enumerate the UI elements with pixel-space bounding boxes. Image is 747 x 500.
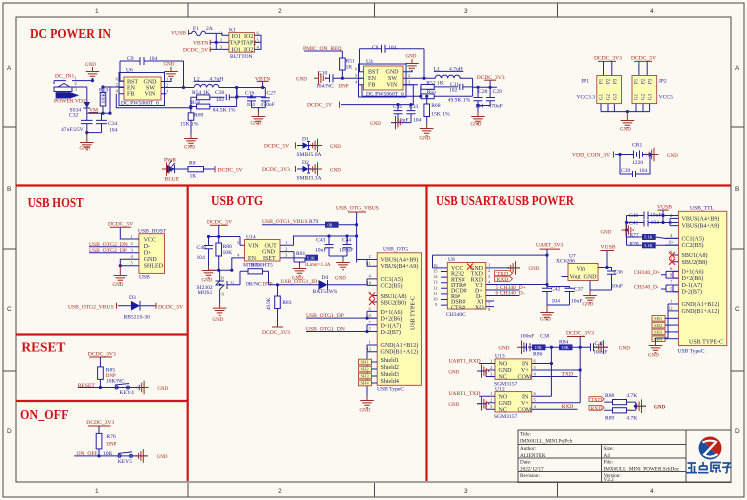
svg-text:Shield1: Shield1 [381, 358, 399, 364]
svg-text:1: 1 [131, 234, 134, 239]
diode D1 TVS [264, 137, 322, 159]
shield stub SH1 [359, 359, 378, 365]
svg-text:JP2: JP2 [659, 79, 667, 85]
svg-text:NO: NO [499, 394, 508, 400]
capacitor C34 [96, 113, 118, 133]
node DCDC_3V3 (switches) [566, 331, 594, 337]
shield stub SH3 [359, 373, 378, 379]
svg-text:ILimit=1.3A: ILimit=1.3A [305, 263, 331, 268]
svg-text:DCDC_5V: DCDC_5V [108, 222, 133, 228]
svg-text:USB_OTG: USB_OTG [383, 247, 408, 253]
node PMIC_ON_REQ [303, 46, 342, 52]
svg-text:SH3: SH3 [654, 330, 663, 335]
svg-text:VDD_COIN_3V: VDD_COIN_3V [572, 153, 610, 159]
svg-text:5: 5 [534, 398, 537, 403]
svg-text:Vin: Vin [577, 267, 586, 273]
resistor R89 [604, 402, 637, 421]
svg-text:CC1(A5): CC1(A5) [381, 276, 403, 283]
svg-text:GND: GND [360, 409, 371, 414]
svg-text:11: 11 [668, 220, 673, 225]
ground (CH340 pin1) [508, 261, 539, 275]
svg-text:V2.2: V2.2 [604, 477, 615, 483]
wire C40/C41 left vertical [626, 216, 628, 246]
ground (below USB_TTL) [648, 341, 662, 359]
svg-text:C: C [735, 306, 740, 313]
shield stub SH1 (TTL) [652, 316, 678, 322]
svg-text:D: D [735, 428, 740, 435]
svg-text:USB TypeC: USB TypeC [377, 387, 404, 393]
capacitor C40 [627, 212, 679, 220]
port RXD [495, 276, 513, 283]
svg-text:GND: GND [471, 123, 482, 128]
connector DC_IN1 barrel jack [54, 76, 78, 92]
svg-text:C32: C32 [69, 113, 79, 119]
svg-text:GND: GND [184, 146, 195, 151]
svg-text:GND: GND [620, 128, 631, 133]
node DCDC_3V3 (JP1) [594, 56, 622, 62]
node CH340_D- (TTL side) [634, 284, 678, 292]
svg-text:1: 1 [95, 8, 99, 15]
svg-text:GND: GND [335, 277, 346, 282]
resistor R56 [191, 88, 237, 114]
resistor R85 [98, 357, 125, 388]
svg-text:49.9K 1%: 49.9K 1% [448, 97, 471, 103]
shield stub SH3 (TTL) [652, 329, 678, 335]
svg-text:R76: R76 [106, 434, 116, 440]
ground (U12 GND pin) [448, 397, 488, 411]
svg-text:104: 104 [109, 128, 118, 134]
svg-text:C37: C37 [574, 286, 584, 292]
svg-text:BUTTON: BUTTON [230, 54, 253, 60]
svg-text:DCDC_3V3: DCDC_3V3 [594, 56, 622, 62]
svg-text:5: 5 [131, 260, 134, 265]
svg-text:2: 2 [166, 83, 169, 88]
svg-text:SH1: SH1 [361, 360, 370, 365]
ground (below R69) [184, 134, 198, 151]
capacitor C49 [591, 341, 609, 356]
svg-text:C38: C38 [540, 334, 550, 340]
svg-text:3: 3 [490, 404, 493, 409]
svg-text:GND: GND [584, 275, 598, 281]
no-connect X (VCC row) [467, 264, 473, 270]
capacitor C36 [607, 268, 623, 291]
LED PWR (blue) [162, 158, 182, 183]
node DCDC_5V (USB host) [108, 222, 133, 228]
svg-text:15K 1%: 15K 1% [431, 112, 450, 118]
svg-text:D-: D- [144, 244, 150, 250]
svg-text:10: 10 [668, 240, 673, 245]
node DCDC_3V3 (below R83) [262, 327, 290, 336]
node VM [89, 108, 99, 114]
svg-text:4: 4 [116, 89, 119, 94]
svg-text:R85: R85 [106, 367, 116, 373]
ground (right of R88/R89) [634, 399, 665, 413]
node ON_OFF [74, 451, 148, 457]
svg-text:V+: V+ [521, 368, 529, 374]
svg-text:A: A [7, 65, 12, 72]
node UART1_TXD [448, 391, 480, 397]
resistor R69 [180, 113, 204, 135]
svg-text:7: 7 [369, 320, 372, 325]
svg-text:15: 15 [433, 269, 438, 274]
svg-text:UART_3V3: UART_3V3 [536, 243, 564, 249]
svg-text:49.9K: 49.9K [267, 297, 272, 310]
svg-text:GND: GND [448, 403, 459, 408]
svg-text:VBUS(A4+B9): VBUS(A4+B9) [682, 216, 720, 223]
svg-text:R8: R8 [189, 161, 196, 167]
ground (right of CR1) [647, 148, 678, 162]
svg-text:4.7K: 4.7K [626, 393, 637, 399]
svg-text:GND: GND [262, 250, 276, 256]
resistor R81 [296, 251, 331, 268]
svg-text:SH2: SH2 [654, 323, 663, 328]
svg-text:10uF: 10uF [612, 284, 624, 290]
svg-text:8: 8 [488, 307, 491, 312]
svg-text:GND: GND [113, 283, 124, 288]
svg-text:CC1(A5): CC1(A5) [682, 236, 704, 243]
ground (below C42/C37) [540, 305, 554, 323]
svg-text:U6: U6 [126, 68, 133, 74]
svg-text:IMX6ULL_MINI_POWER.SchDoc: IMX6ULL_MINI_POWER.SchDoc [604, 467, 680, 473]
wire DCDC_5V drop [209, 225, 241, 243]
node CH340_D+ (TTL side) [634, 270, 678, 278]
red section divider vertical left [187, 186, 189, 482]
wire U4 output rail [473, 78, 497, 87]
svg-text:DCDC_3V3: DCDC_3V3 [86, 420, 114, 426]
svg-text:VUSB: VUSB [601, 245, 616, 251]
svg-text:IO2: IO2 [244, 34, 253, 40]
svg-text:10uF: 10uF [571, 299, 583, 305]
svg-text:C39: C39 [621, 168, 631, 174]
svg-text:Title:: Title: [520, 432, 532, 438]
wire EN feed [87, 87, 124, 113]
svg-text:R81: R81 [296, 251, 306, 257]
svg-text:SH3: SH3 [361, 374, 370, 379]
svg-text:ISET: ISET [263, 256, 276, 262]
svg-text:COM: COM [518, 375, 532, 381]
capacitor C28 [474, 87, 488, 109]
svg-text:SBU2(B8): SBU2(B8) [682, 259, 708, 266]
svg-text:10K: 10K [562, 345, 569, 350]
capacitor C11 [449, 82, 473, 94]
capacitor C9 [120, 56, 184, 65]
svg-text:GND: GND [654, 406, 666, 411]
svg-text:16: 16 [433, 263, 438, 268]
svg-text:VUSB: VUSB [171, 31, 186, 37]
svg-text:GND: GND [213, 318, 224, 323]
glyph 正 [687, 463, 698, 473]
svg-text:RESET: RESET [21, 340, 65, 355]
svg-text:3: 3 [408, 80, 411, 85]
resistor R52 [421, 81, 458, 90]
svg-text:15K 1%: 15K 1% [180, 122, 199, 128]
svg-text:3: 3 [464, 488, 468, 495]
ground (below C43/C44) [329, 256, 350, 282]
svg-text:SBU1(A8): SBU1(A8) [381, 293, 407, 300]
svg-text:BST: BST [127, 79, 138, 85]
resistor R84 [559, 339, 573, 350]
resistor R68 [424, 103, 450, 124]
svg-text:KEY5: KEY5 [118, 459, 132, 465]
svg-text:KEY4: KEY4 [120, 390, 134, 396]
svg-text:VCC3.3: VCC3.3 [577, 95, 596, 101]
svg-text:3: 3 [131, 247, 134, 252]
svg-text:IMX6ULL_MINI.PrjPcb: IMX6ULL_MINI.PrjPcb [520, 439, 573, 445]
wire VBUS drop [357, 212, 367, 263]
svg-text:VCC: VCC [144, 237, 156, 243]
capacitor C33 [407, 104, 422, 124]
svg-text:C: C [7, 306, 12, 313]
logo ALIENTEK swirl [699, 437, 722, 460]
svg-text:5: 5 [355, 73, 358, 78]
node RESET [78, 383, 149, 389]
svg-text:6: 6 [369, 307, 372, 312]
svg-text:GND: GND [202, 279, 213, 284]
svg-text:IN: IN [522, 362, 529, 368]
svg-text:CTS#: CTS# [451, 305, 465, 311]
node CH340_D+ [486, 285, 526, 291]
svg-text:G3: G3 [649, 93, 654, 100]
svg-text:DCDC_5V: DCDC_5V [218, 168, 243, 174]
frame column ticks [188, 3, 558, 497]
node DCDC_5V (OTG) [207, 220, 232, 226]
svg-text:4.7K: 4.7K [626, 416, 637, 422]
svg-text:470uF: 470uF [489, 103, 503, 109]
svg-text:TAP2: TAP2 [243, 41, 257, 47]
svg-text:EN: EN [248, 256, 257, 262]
frame row ticks [3, 127, 744, 371]
fuse F1 [189, 26, 216, 36]
svg-text:5.1K: 5.1K [644, 235, 652, 240]
resistor R80 [209, 243, 233, 270]
svg-text:1: 1 [166, 76, 169, 81]
svg-text:CH340C: CH340C [446, 312, 466, 318]
port RXD (R89) [589, 405, 604, 412]
svg-text:VBUS(B4+A9): VBUS(B4+A9) [381, 263, 419, 270]
svg-text:2: 2 [278, 8, 282, 15]
node DCDC_5V (JP2) [631, 56, 656, 62]
svg-text:VIN: VIN [387, 83, 398, 89]
svg-text:DCDC_3V3: DCDC_3V3 [566, 331, 594, 337]
svg-text:C34: C34 [108, 121, 118, 127]
ground (below USB_HOST) [113, 266, 128, 288]
svg-text:1: 1 [490, 391, 493, 396]
shield stub SH2 [359, 366, 378, 372]
capacitor C39 [621, 168, 648, 177]
red section divider horizontal [16, 184, 731, 186]
node USB_OTG2_VBUS [68, 303, 117, 311]
resistor R82 [240, 263, 273, 288]
regulator U7 XC6206 [556, 254, 607, 281]
svg-text:C49: C49 [595, 341, 605, 347]
junction [215, 41, 218, 44]
svg-text:USB_TTL: USB_TTL [690, 206, 715, 212]
glyph 原 [711, 463, 722, 473]
svg-text:GND: GND [330, 145, 341, 150]
switch U12 SGM3157 [479, 387, 580, 421]
svg-text:2: 2 [220, 38, 223, 43]
svg-text:GND: GND [583, 303, 594, 308]
svg-text:RXD: RXD [497, 277, 509, 283]
ground (U7/C36) [583, 281, 612, 308]
node USB_OTG1_DN [306, 326, 377, 333]
svg-text:102: 102 [216, 97, 225, 103]
svg-text:GND: GND [164, 63, 175, 68]
svg-text:DCDC_5V: DCDC_5V [307, 102, 332, 108]
svg-text:C16: C16 [245, 91, 255, 97]
svg-text:2: 2 [408, 73, 411, 78]
svg-text:6: 6 [355, 67, 358, 72]
node UART_3V3 [536, 243, 564, 250]
svg-text:R83: R83 [282, 300, 292, 306]
switch KEY4 [115, 384, 134, 397]
transistor MOS1 SI2302 [197, 270, 241, 303]
svg-text:CH340_D+: CH340_D+ [634, 270, 660, 276]
ground (below C32/C34) [80, 133, 94, 152]
svg-text:RXD: RXD [591, 406, 603, 412]
svg-text:CC2(B5): CC2(B5) [381, 283, 403, 290]
svg-text:1: 1 [285, 240, 288, 245]
svg-text:USB OTG: USB OTG [211, 193, 263, 208]
svg-text:ALIENTEK: ALIENTEK [520, 453, 546, 459]
svg-text:2: 2 [278, 488, 282, 495]
capacitor C8 [360, 45, 425, 78]
svg-text:10: 10 [433, 297, 438, 302]
glyph 子 [722, 463, 732, 473]
node USB_OTG2_DN [89, 242, 134, 248]
svg-text:1: 1 [670, 299, 673, 304]
svg-text:104: 104 [197, 255, 206, 261]
svg-text:DCDC_5V: DCDC_5V [631, 56, 656, 62]
wire VUSB to Vin [606, 251, 608, 268]
svg-text:2: 2 [75, 81, 78, 86]
connector USB_TTL type-c [665, 206, 727, 355]
svg-text:47uF/25V: 47uF/25V [61, 127, 84, 133]
no-connect X SBU1 (TTL) [669, 252, 675, 258]
ground (above U6 pin1) [161, 63, 178, 82]
svg-text:1: 1 [369, 340, 372, 345]
op-amp U4 [355, 59, 435, 98]
svg-text:D+2(B6): D+2(B6) [682, 275, 704, 282]
svg-text:100uF: 100uF [339, 248, 353, 254]
svg-text:GND: GND [330, 169, 341, 174]
resistor R77 [627, 232, 679, 240]
svg-text:B: B [735, 186, 739, 193]
svg-text:4: 4 [237, 252, 240, 257]
svg-text:P3: P3 [649, 78, 654, 84]
svg-text:100nF: 100nF [520, 334, 534, 340]
svg-text:A: A [735, 65, 740, 72]
svg-text:GND: GND [448, 371, 459, 376]
svg-text:3: 3 [166, 89, 169, 94]
svg-text:R68: R68 [431, 103, 441, 109]
svg-text:D-1(A7): D-1(A7) [381, 322, 402, 329]
svg-text:R82: R82 [251, 263, 261, 269]
svg-text:104: 104 [413, 118, 422, 124]
svg-text:A4: A4 [604, 453, 611, 459]
inductor L2 [194, 77, 266, 88]
resistor R88 [604, 393, 637, 405]
svg-text:TAP1: TAP1 [230, 41, 244, 47]
node VDD_COIN_3V [572, 152, 614, 159]
svg-text:UART1_RXD: UART1_RXD [448, 359, 480, 365]
svg-text:GND: GND [157, 455, 168, 460]
svg-text:GND: GND [296, 78, 307, 83]
svg-text:B: B [7, 186, 11, 193]
svg-text:GND(A1+B12): GND(A1+B12) [381, 342, 419, 349]
svg-text:1: 1 [75, 76, 78, 81]
svg-text:DCDC_3V3: DCDC_3V3 [262, 167, 290, 173]
wire TTL GND drop [656, 311, 669, 341]
svg-text:SBU2(B0): SBU2(B0) [381, 300, 407, 307]
ground (left of C38) [499, 340, 529, 354]
svg-text:DCDC_5V: DCDC_5V [158, 305, 183, 311]
svg-text:S: S [222, 292, 225, 297]
svg-text:TXD: TXD [591, 397, 603, 403]
diode SS34 [70, 87, 91, 114]
capacitor C10 [316, 71, 363, 90]
svg-text:2022/12/17: 2022/12/17 [520, 467, 544, 473]
svg-text:2: 2 [131, 241, 134, 246]
svg-text:BAT54WS: BAT54WS [313, 289, 338, 295]
svg-text:G2: G2 [607, 93, 612, 100]
svg-text:3: 3 [490, 371, 493, 376]
capacitor C41 [627, 220, 679, 227]
wire jack pin2 to GND junction [78, 81, 93, 87]
svg-text:VBUS(B4+A9): VBUS(B4+A9) [682, 223, 720, 230]
svg-text:SHLED: SHLED [144, 263, 164, 269]
capacitor C30 [215, 90, 237, 103]
svg-text:84.5K 1%: 84.5K 1% [213, 107, 236, 113]
wire battery loop [620, 155, 650, 175]
svg-text:D+2(B6): D+2(B6) [381, 316, 403, 323]
svg-text:GND: GND [648, 354, 659, 359]
diode D2 TVS [262, 160, 322, 182]
svg-text:4: 4 [650, 8, 654, 15]
port TXD (U13 COM) [562, 371, 574, 377]
svg-text:Size:: Size: [604, 446, 615, 452]
svg-text:V+: V+ [521, 401, 529, 407]
svg-text:P1: P1 [600, 78, 605, 84]
svg-text:TXD: TXD [562, 371, 574, 377]
svg-text:USB TypeC: USB TypeC [678, 349, 705, 355]
svg-text:D: D [7, 428, 12, 435]
svg-text:USB_OTG2_VBUS: USB_OTG2_VBUS [68, 305, 114, 311]
svg-text:4: 4 [355, 80, 358, 85]
wire OUT up to cap rail [294, 236, 357, 245]
svg-text:0R/NC: 0R/NC [246, 281, 262, 287]
svg-text:4: 4 [131, 254, 134, 259]
svg-text:GND: GND [144, 257, 158, 263]
svg-text:SW: SW [388, 76, 397, 82]
resistor R54 [191, 90, 225, 100]
svg-text:DCDC_5V: DCDC_5V [207, 220, 232, 226]
svg-text:GND: GND [619, 347, 630, 352]
svg-text:POWER VD2: POWER VD2 [54, 99, 86, 105]
red divider USB HOST / RESET [16, 333, 188, 335]
inductor L1 [434, 67, 473, 79]
ground (right of KEY4) [137, 381, 169, 395]
wire VUSB stem [662, 210, 664, 222]
svg-text:C8: C8 [372, 45, 379, 51]
svg-text:EN: EN [127, 86, 136, 92]
ground (right of D2) [310, 162, 341, 176]
svg-text:USB HOST: USB HOST [28, 195, 84, 210]
no-connect X SBU2 [369, 299, 375, 305]
svg-text:Date:: Date: [520, 460, 532, 466]
svg-text:D-2(B7): D-2(B7) [682, 289, 702, 296]
svg-text:GND: GND [251, 122, 262, 127]
